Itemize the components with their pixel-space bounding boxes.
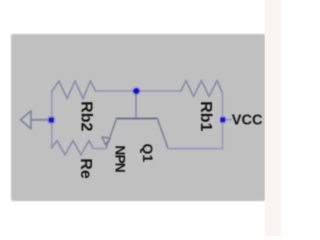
input port triangle [21,111,32,129]
transistor Q1 emitter [106,119,117,149]
node VCC square [219,116,226,123]
svg-text:Rb2: Rb2 [77,101,94,131]
wire Rb2 to junction [96,90,137,92]
resistor Rb2 [52,81,96,99]
svg-text:VCC: VCC [232,112,263,128]
resistor Rb1 [181,81,223,97]
node A (input junction square) [47,116,55,124]
transistor Q1 emitter arrow [102,137,110,145]
wire collector to right vertical [168,148,223,150]
wire base stub [135,91,137,118]
junction dot at base rail [132,87,141,96]
wire junction to Rb1 [136,90,181,92]
wire port to node A [31,119,52,121]
svg-text:Rb1: Rb1 [197,101,214,131]
wire VCC stub [225,119,232,121]
svg-text:Q1: Q1 [140,143,156,162]
schematic gray background [11,34,265,201]
svg-text:Re: Re [77,158,94,179]
wire left vertical [51,92,53,149]
wire Re to emitter [94,148,107,150]
resistor Re [52,141,94,156]
transistor Q1 base bar [117,117,158,119]
transistor Q1 collector [157,119,168,149]
svg-text:NPN: NPN [113,145,129,172]
wire right vertical to VCC node [222,93,224,149]
